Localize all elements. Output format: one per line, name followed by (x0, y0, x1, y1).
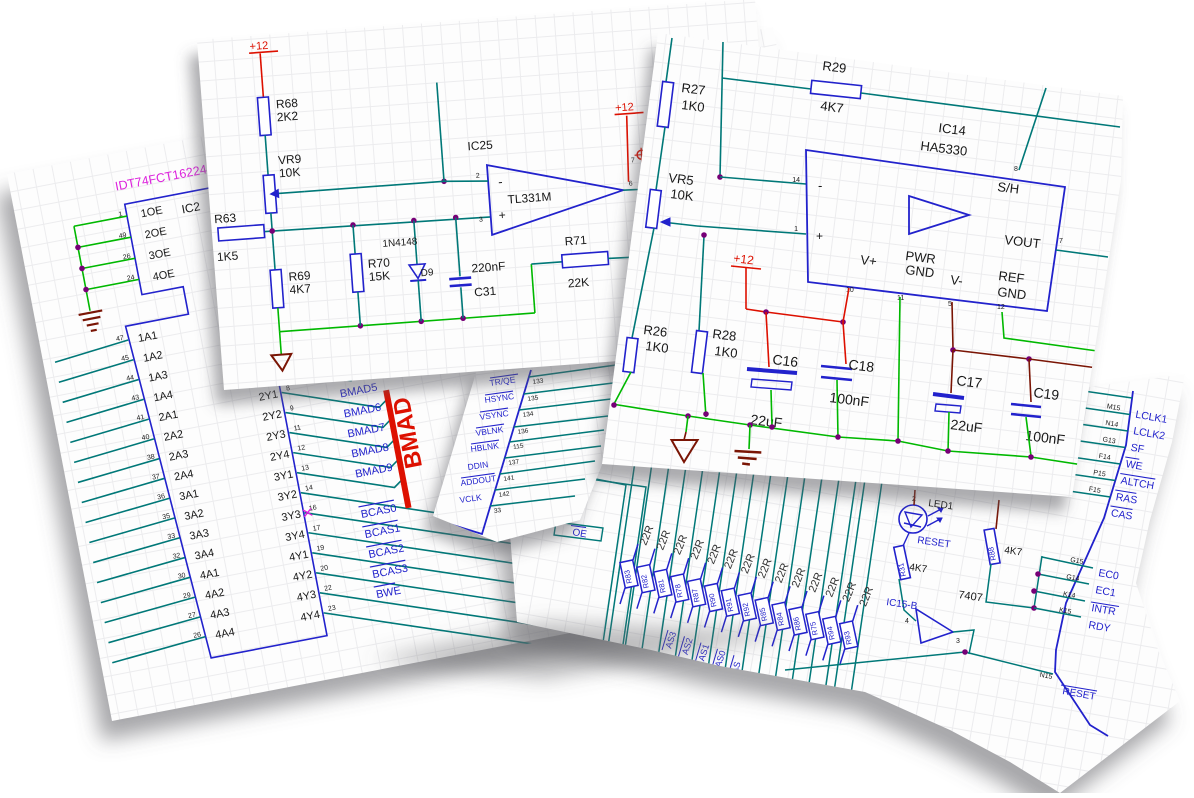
svg-text:C17: C17 (956, 372, 984, 391)
svg-text:20: 20 (320, 564, 329, 572)
sheet E paper (424, 361, 625, 557)
svg-text:SF: SF (1130, 442, 1145, 456)
sheet A paper (0, 47, 867, 741)
pins LCLK1..CAS (1056, 387, 1132, 398)
wire top (666, 38, 672, 82)
wire BCAS1 (308, 472, 642, 642)
svg-text:1K0: 1K0 (645, 338, 670, 356)
wire -input (304, 178, 488, 194)
svg-text:2: 2 (476, 173, 481, 180)
resistor R70 15K (353, 225, 355, 254)
svg-text:15K: 15K (368, 268, 390, 284)
potentiometer VR5 10K (646, 189, 662, 228)
bus wires (verticals under C) (600, 448, 637, 700)
svg-text:8: 8 (1014, 166, 1018, 173)
wire to bus (286, 393, 393, 445)
svg-text:V+: V+ (860, 252, 878, 269)
wire (656, 127, 665, 190)
svg-text:V-: V- (950, 272, 964, 288)
resistor R28 1K0 (699, 236, 704, 331)
diode D9 1N4148 (414, 221, 417, 265)
wiper arrow (662, 222, 697, 226)
wire (1029, 359, 1090, 367)
svg-text:IC25: IC25 (467, 138, 494, 154)
resistor R94 22R (836, 600, 841, 616)
svg-text:1K0: 1K0 (714, 343, 739, 361)
extra verticals right (835, 452, 869, 688)
node junction (441, 178, 447, 184)
svg-text:7: 7 (1059, 238, 1063, 245)
wire vout (1056, 250, 1108, 257)
ground bars (749, 425, 750, 449)
resistor R82 22R (650, 549, 655, 565)
svg-text:R29: R29 (822, 58, 848, 76)
capacitor C17 22uF (951, 350, 953, 393)
output wire (953, 630, 974, 654)
svg-text:+: + (498, 208, 506, 222)
IC IC2 body outline (103, 182, 327, 662)
wire BCAS2 (312, 492, 646, 662)
resistor R71 22K (531, 264, 535, 313)
wire to N15 (965, 652, 1053, 674)
wire long (861, 93, 1120, 127)
sheet B paper (189, 14, 774, 405)
wire (903, 533, 909, 546)
ground triangle (686, 416, 688, 432)
svg-text:C19: C19 (1033, 384, 1061, 403)
resistor R83 22R (633, 544, 638, 560)
shadow band over sheet D (370, 622, 800, 680)
resistor R63 1K5 (218, 225, 265, 241)
ground rail (green bottom) (612, 404, 1096, 467)
svg-text:3: 3 (956, 638, 960, 645)
wire (271, 213, 275, 270)
bracket G15/G14/K14 (1034, 556, 1042, 608)
resistor R69 4K7 (270, 269, 284, 308)
wire green (614, 372, 631, 404)
wire (632, 228, 654, 338)
resistor R78 22R (684, 558, 689, 574)
IC edge (TR/QE column) (440, 370, 531, 534)
wire (745, 268, 747, 309)
resistor R85 22R (768, 582, 773, 598)
svg-text:22: 22 (324, 585, 333, 593)
wire green (703, 373, 706, 417)
svg-text:4K7: 4K7 (289, 281, 312, 297)
svg-text:4: 4 (905, 618, 909, 625)
wire (301, 432, 635, 602)
wire (837, 380, 838, 438)
rail +12 (746, 309, 843, 322)
svg-text:19: 19 (316, 544, 325, 552)
sheet C paper (594, 48, 1115, 512)
rail V- (953, 350, 1029, 359)
LED LED1 (899, 505, 927, 533)
svg-text:S/H: S/H (997, 179, 1020, 197)
resistor R91 22R (734, 572, 739, 588)
wire (260, 53, 263, 97)
svg-text:2K2: 2K2 (276, 109, 299, 125)
wire (624, 116, 632, 182)
capacitor C31 220nF (456, 218, 460, 277)
wire (914, 490, 915, 505)
output wire (623, 179, 769, 194)
svg-text:14: 14 (792, 177, 800, 184)
svg-text:1: 1 (794, 226, 798, 233)
svg-text:12: 12 (297, 444, 306, 452)
wire (278, 308, 280, 332)
svg-text:C16: C16 (772, 351, 800, 370)
svg-text:1K5: 1K5 (216, 249, 239, 265)
inverter IC15-B 7407 (916, 609, 953, 643)
resistor R68 2K2 (257, 97, 271, 136)
wire (640, 160, 649, 253)
wire (324, 553, 658, 723)
resistor R86 22R (802, 591, 807, 607)
wire BCAS0 (305, 452, 639, 622)
svg-text:C18: C18 (848, 356, 876, 375)
svg-text:D9: D9 (420, 267, 434, 279)
led arrows (928, 508, 943, 516)
triangle (909, 196, 969, 234)
svg-text:22K: 22K (567, 275, 589, 291)
resistor R90 22R (718, 568, 723, 584)
resistor R81 22R (667, 553, 672, 569)
svg-text:+12: +12 (249, 40, 268, 53)
resistor R27 1K0 (657, 81, 673, 127)
wire (1026, 417, 1031, 456)
svg-text:10K: 10K (670, 186, 695, 204)
ground symbol (271, 354, 292, 371)
svg-text:10: 10 (846, 287, 854, 294)
svg-text:14: 14 (305, 484, 314, 492)
wiper arrow (278, 192, 304, 194)
svg-text:R71: R71 (564, 233, 587, 249)
op-amp IC14 HA5330 box (806, 150, 1065, 311)
svg-text:11: 11 (293, 424, 302, 432)
potentiometer VR9 10K (263, 175, 277, 214)
svg-text:3: 3 (479, 217, 484, 224)
wire BWE (320, 533, 654, 703)
long wire to inverter node (785, 652, 965, 670)
wire to bus (282, 373, 389, 425)
wire (948, 412, 949, 452)
wire (650, 290, 655, 359)
resistor R92 22R (751, 577, 756, 593)
capacitor C19 100nF (1029, 359, 1031, 402)
svg-text:R28: R28 (712, 326, 738, 344)
wire (986, 564, 1034, 608)
wire (270, 319, 344, 354)
bus BMAD (red) (386, 390, 408, 508)
IC edge (right column) (1055, 391, 1133, 736)
resistor (642, 252, 656, 291)
svg-text:+12: +12 (733, 251, 755, 267)
ground symbol (bars) (79, 310, 103, 315)
capacitor C18 100nF (843, 322, 846, 364)
svg-text:C31: C31 (474, 284, 497, 300)
wire pin11 green (898, 297, 900, 441)
net label OE box (554, 522, 603, 541)
input rail (261, 215, 491, 234)
wire to +input (697, 226, 806, 234)
resistor R84 22R (785, 586, 790, 602)
svg-text:17: 17 (312, 524, 321, 532)
wire to -input (720, 177, 806, 184)
capacitor C16 22uF (766, 312, 769, 367)
resistor R87 22R (701, 563, 706, 579)
svg-text:13: 13 (301, 464, 310, 472)
svg-text:23: 23 (327, 605, 336, 613)
wire to ground (280, 332, 282, 355)
sheet D paper (495, 394, 1175, 798)
wire BCAS3 (316, 513, 650, 683)
svg-text:REF: REF (998, 268, 1026, 286)
supply symbol (right chain) (637, 150, 647, 160)
wire OE feed (470, 506, 556, 524)
svg-text:16: 16 (308, 504, 317, 512)
wire (771, 390, 772, 427)
wire to bus (289, 413, 396, 465)
wire to bus (297, 453, 404, 505)
wire V+ pin (843, 288, 849, 322)
ground rail (green) (280, 313, 535, 332)
wire V- dark red (952, 302, 953, 349)
resistor R93 22R (853, 605, 858, 621)
svg-text:115: 115 (513, 443, 525, 451)
op-amp IC25 TL331M (487, 155, 626, 235)
ground bus (green) (74, 226, 90, 310)
svg-text:10K: 10K (278, 165, 300, 181)
pin mark (magenta X) (303, 508, 312, 516)
svg-text:220nF: 220nF (471, 259, 506, 275)
svg-text:4K7: 4K7 (820, 98, 845, 116)
wire (899, 579, 916, 621)
svg-text:R63: R63 (214, 211, 237, 227)
svg-text:33: 33 (494, 507, 503, 515)
wire (274, 339, 348, 374)
svg-text:12: 12 (997, 304, 1005, 311)
resistor R31 4K7 (894, 545, 911, 579)
resistor R75 22R (819, 596, 824, 612)
resistor R29 4K7 (722, 78, 811, 89)
resistor R88 4K7 (996, 500, 999, 529)
svg-text:+: + (816, 229, 823, 243)
resistor R26 1K0 (623, 338, 638, 373)
wire to bus (293, 433, 400, 485)
svg-text:1K0: 1K0 (681, 97, 706, 115)
corner wires k0 k1 (540, 468, 626, 695)
wire (278, 359, 352, 394)
vertical feedback (720, 42, 723, 177)
pin12 wire green (1002, 312, 1120, 354)
wire (265, 135, 268, 175)
svg-text:-: - (818, 178, 822, 193)
svg-text:R27: R27 (681, 80, 707, 98)
wire S/H (1019, 88, 1046, 170)
svg-text:7: 7 (631, 157, 636, 164)
wire (266, 299, 340, 334)
svg-text:+12: +12 (615, 101, 634, 114)
